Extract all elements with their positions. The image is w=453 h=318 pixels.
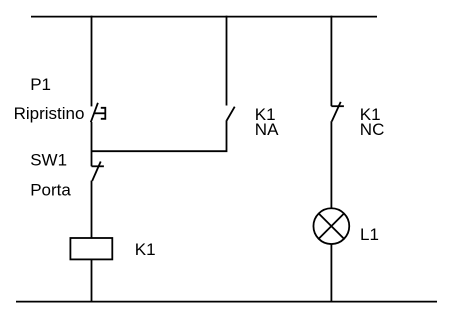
wire left branch upper [91,16,93,107]
svg-text:NA: NA [255,120,279,139]
wire coil to bottom rail [91,259,93,301]
pushbutton P1 [91,103,106,122]
svg-text:SW1: SW1 [30,150,67,169]
svg-text:Ripristino: Ripristino [14,104,85,123]
wire right branch mid [330,121,332,208]
wire left branch mid [91,122,93,166]
wire right branch upper [330,16,332,107]
svg-text:P1: P1 [30,75,51,94]
svg-text:NC: NC [360,120,385,139]
coil K1 [70,238,112,259]
wire middle branch upper [226,16,228,106]
bottom rail [16,301,437,303]
wire parallel link [92,120,227,151]
contact K1 NA [227,107,235,121]
contact K1 NC [331,102,344,122]
wire left branch lower [91,181,93,238]
top rail [31,16,377,18]
svg-text:Porta: Porta [30,180,71,199]
switch SW1 [92,162,104,181]
lamp L1 [313,208,349,244]
wire lamp to bottom rail [330,244,332,302]
svg-text:L1: L1 [360,225,379,244]
svg-text:K1: K1 [135,240,156,259]
